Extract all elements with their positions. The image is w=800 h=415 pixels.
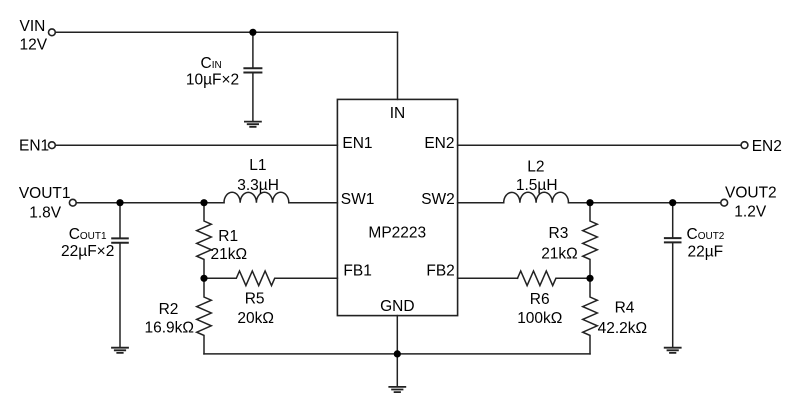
wire EN2	[458, 144, 742, 146]
resistor R4	[583, 278, 598, 354]
wire COUT1 bottom lead	[119, 244, 121, 347]
svg-text:VIN: VIN	[20, 18, 46, 35]
node junction FB1	[200, 275, 207, 282]
svg-text:100kΩ: 100kΩ	[517, 310, 562, 327]
ground below COUT1	[112, 348, 128, 353]
node junction SW2/R3	[586, 199, 593, 206]
terminal EN1	[49, 142, 56, 149]
svg-text:COUT2: COUT2	[687, 226, 725, 243]
svg-text:1.8V: 1.8V	[29, 205, 62, 222]
wire L2 to VOUT2	[569, 202, 722, 204]
node junction VOUT2/COUT2	[669, 199, 676, 206]
wire ground bus	[204, 353, 590, 355]
resistor R5	[204, 271, 337, 286]
terminal EN2	[741, 142, 748, 149]
node junction GND bus	[394, 350, 401, 357]
svg-text:COUT1: COUT1	[69, 226, 107, 243]
svg-text:20kΩ: 20kΩ	[237, 310, 274, 327]
wire COUT2 bottom lead	[672, 243, 674, 347]
svg-text:FB2: FB2	[426, 262, 454, 279]
svg-text:EN2: EN2	[752, 138, 782, 155]
svg-text:R5: R5	[245, 291, 265, 308]
svg-text:16.9kΩ: 16.9kΩ	[145, 320, 195, 337]
svg-text:22µF: 22µF	[688, 243, 724, 260]
wire VIN rail	[55, 31, 397, 33]
resistor R1	[197, 203, 212, 279]
wire IN pin drop	[397, 32, 399, 99]
svg-text:EN1: EN1	[342, 135, 372, 152]
resistor R6	[518, 271, 591, 286]
wire COUT1 top lead	[119, 203, 121, 238]
wire CIN top lead	[252, 32, 254, 67]
svg-text:CIN: CIN	[201, 55, 222, 72]
node junction VIN/CIN	[249, 29, 256, 36]
svg-text:1.2V: 1.2V	[734, 204, 767, 221]
svg-text:L1: L1	[249, 157, 266, 174]
wire EN1	[55, 144, 337, 146]
svg-text:EN2: EN2	[424, 135, 454, 152]
inductor L2	[504, 192, 569, 202]
wire main ground stub	[396, 354, 398, 386]
svg-text:42.2kΩ: 42.2kΩ	[598, 320, 648, 337]
capacitor COUT1	[112, 238, 128, 242]
capacitor CIN	[244, 68, 261, 72]
svg-text:GND: GND	[380, 298, 414, 315]
svg-text:MP2223: MP2223	[368, 225, 426, 242]
svg-text:R4: R4	[615, 300, 635, 317]
ground main	[389, 387, 405, 392]
svg-text:10µF×2: 10µF×2	[186, 72, 239, 89]
svg-text:R3: R3	[549, 225, 569, 242]
node junction VOUT1/COUT1	[116, 199, 123, 206]
wire SW2 to L2	[458, 202, 504, 204]
svg-text:IN: IN	[390, 105, 406, 122]
wire COUT2 top lead	[672, 203, 674, 238]
svg-text:VOUT1: VOUT1	[19, 185, 71, 202]
resistor R2	[197, 278, 212, 354]
wire L1 to SW1	[289, 202, 338, 204]
svg-text:R2: R2	[159, 301, 179, 318]
svg-text:21kΩ: 21kΩ	[541, 245, 578, 262]
wire VOUT1 to L1	[76, 202, 224, 204]
svg-text:R1: R1	[218, 228, 238, 245]
svg-text:VOUT2: VOUT2	[725, 185, 777, 202]
terminal VOUT1	[69, 199, 76, 206]
svg-text:1.5µH: 1.5µH	[516, 177, 558, 194]
wire GND pin	[396, 316, 398, 354]
svg-text:SW1: SW1	[341, 191, 375, 208]
wire CIN bottom lead	[252, 74, 254, 121]
op-amp U1 MP2223 box	[337, 99, 457, 315]
svg-text:FB1: FB1	[343, 262, 371, 279]
capacitor COUT2	[665, 238, 681, 242]
svg-text:L2: L2	[527, 158, 544, 175]
node junction FB2	[586, 275, 593, 282]
ground below COUT2	[665, 348, 681, 353]
wire FB2 to R6	[458, 277, 518, 279]
svg-text:SW2: SW2	[421, 191, 455, 208]
svg-text:R6: R6	[530, 291, 550, 308]
node junction VOUT1/R1	[200, 199, 207, 206]
resistor R3	[583, 203, 598, 279]
svg-text:12V: 12V	[20, 36, 48, 53]
inductor L1	[224, 192, 289, 202]
terminal VOUT2	[721, 199, 728, 206]
svg-text:22µF×2: 22µF×2	[61, 243, 114, 260]
svg-text:3.3µH: 3.3µH	[237, 177, 279, 194]
svg-text:EN1: EN1	[19, 138, 49, 155]
ground below CIN	[245, 122, 261, 127]
svg-text:21kΩ: 21kΩ	[211, 246, 248, 263]
terminal VIN	[49, 29, 56, 36]
